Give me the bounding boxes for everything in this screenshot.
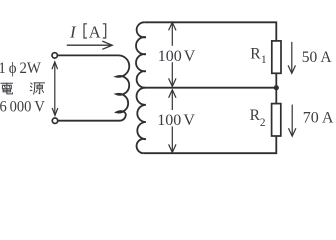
svg-text:100: 100 [157,112,181,129]
primary winding [58,55,130,120]
junction node dot [274,85,279,90]
svg-text:6 000 V: 6 000 V [0,99,45,116]
svg-text:50 A: 50 A [302,48,332,66]
svg-text:V: V [184,48,196,65]
source label kanji GEN (source) [30,83,44,94]
load current arrow 50A [288,42,295,73]
source label kanji DEN (electric) [1,83,13,94]
label R1 [250,46,266,66]
wire middle to R2 [275,88,277,104]
label 100 V top [159,46,197,62]
terminal top-left [52,53,57,58]
svg-text:2: 2 [260,117,266,129]
source voltage double arrow [52,62,58,116]
current label I [A] [69,22,106,41]
bottom wire with right corner [144,136,276,153]
svg-text:V: V [183,112,195,129]
svg-text:1 ϕ 2W: 1 ϕ 2W [0,60,42,77]
middle center-tap wire [145,87,276,89]
top wire with right corner [144,22,276,41]
label 100 V bottom [159,110,197,126]
svg-text:1: 1 [261,54,267,66]
svg-text:R: R [250,46,261,63]
svg-text:100: 100 [158,48,182,65]
resistor R1 [272,41,281,73]
label R2 [250,107,266,129]
terminal bottom-left [52,118,57,123]
voltage arrow 100V bottom [169,90,176,153]
current arrow I [67,41,112,49]
svg-text:70 A: 70 A [303,109,334,127]
voltage arrow 100V top [169,22,176,86]
secondary winding lower [137,88,146,154]
svg-text:A: A [89,22,101,41]
wire R1 to middle [275,73,277,87]
resistor R2 [272,104,281,136]
load current arrow 70A [289,105,296,137]
secondary winding upper [136,22,146,87]
